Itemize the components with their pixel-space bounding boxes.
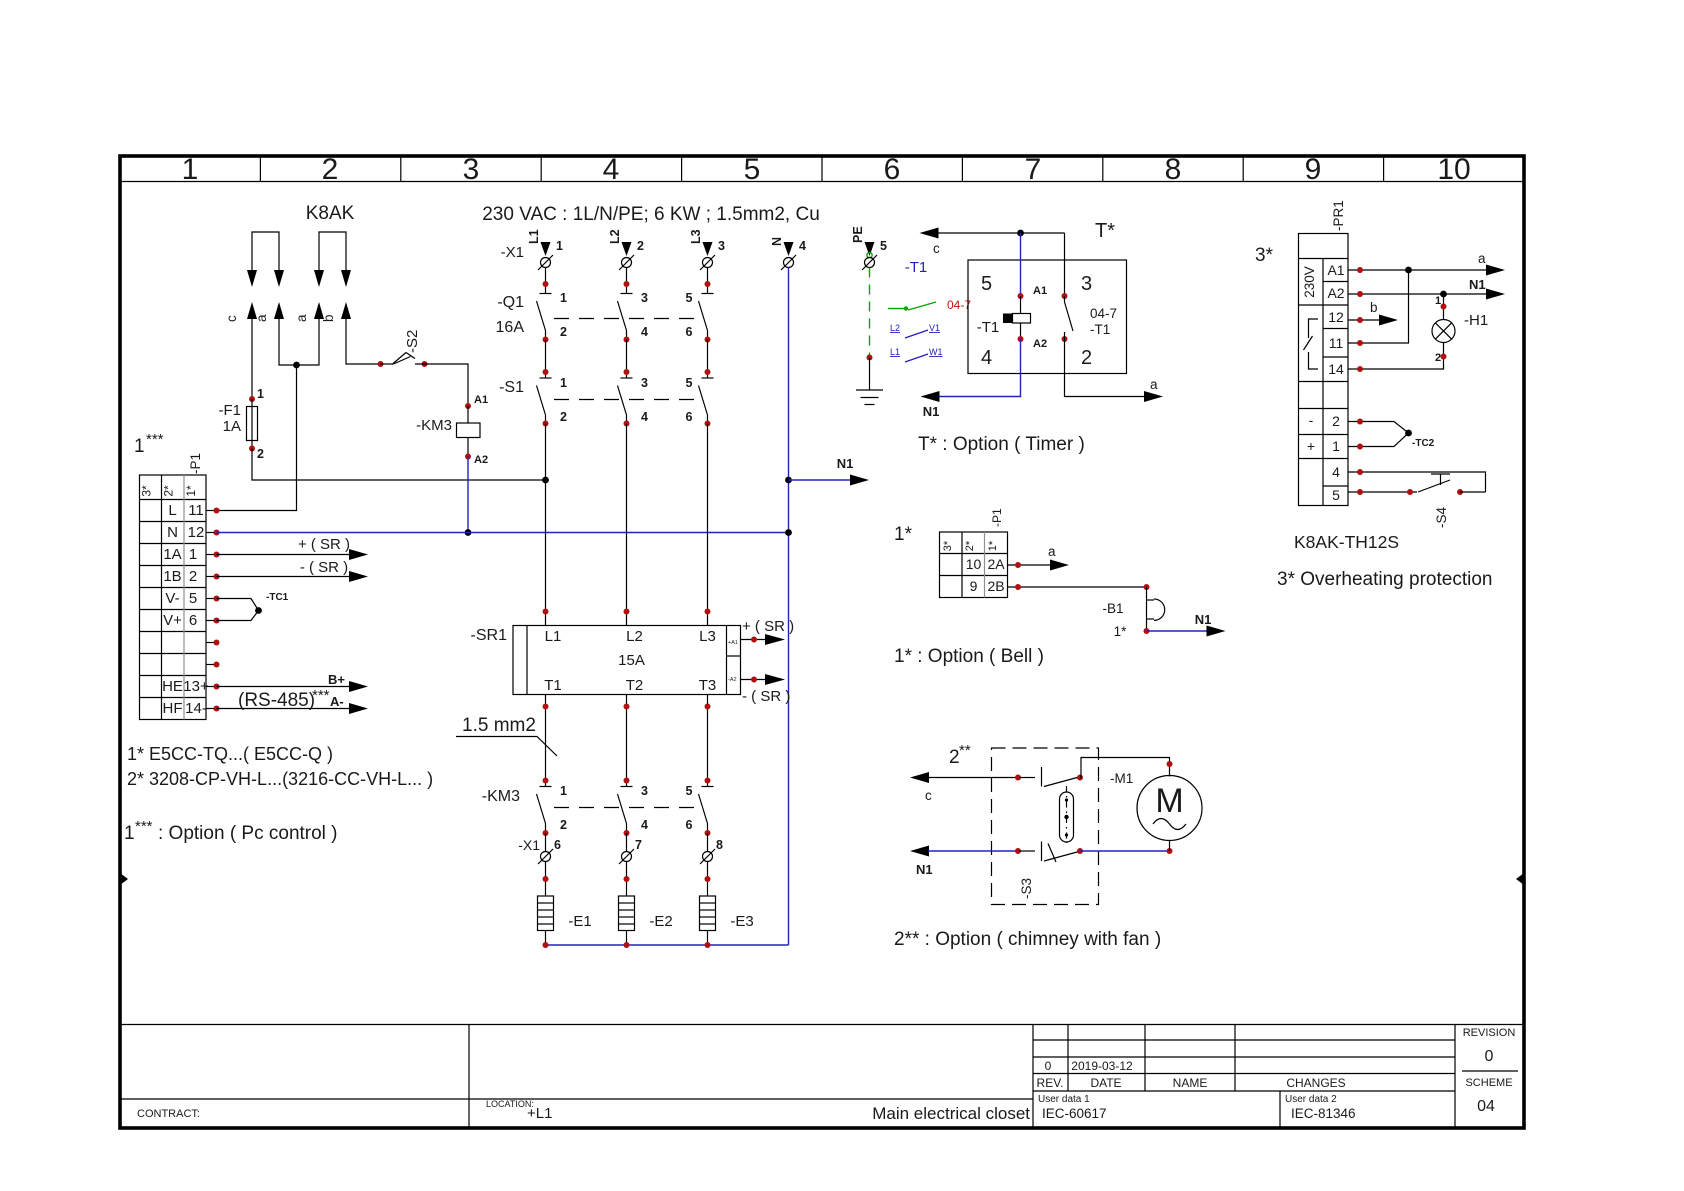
svg-text:7: 7 [1025, 153, 1042, 186]
wire L3 into Q1 [707, 268, 709, 294]
svg-text:230 VAC : 1L/N/PE; 6 KW ; 1.5: 230 VAC : 1L/N/PE; 6 KW ; 1.5mm2, Cu [482, 204, 820, 225]
junction A2 on N bus [465, 529, 472, 536]
svg-text:1.5 mm2: 1.5 mm2 [462, 715, 536, 736]
svg-text:1: 1 [1332, 438, 1340, 454]
svg-text:Main electrical closet: Main electrical closet [872, 1104, 1030, 1123]
svg-text:0: 0 [1485, 1048, 1494, 1065]
svg-text:PE: PE [851, 226, 865, 243]
fuse F1 [251, 399, 253, 449]
svg-text:a: a [254, 314, 269, 322]
svg-text:4: 4 [641, 325, 648, 339]
column numbers 1-10 [182, 153, 1471, 186]
svg-text:-T1: -T1 [905, 259, 928, 276]
wire coil A1 [1020, 233, 1022, 296]
fuse F1 pin2 [249, 446, 255, 452]
breaker Q1 pole 1 [537, 294, 552, 340]
svg-text:L2: L2 [890, 323, 900, 333]
svg-text:b: b [321, 314, 336, 322]
svg-text:-S2: -S2 [404, 330, 421, 353]
svg-text:5: 5 [1332, 487, 1340, 503]
bell junction to N1 [1144, 628, 1150, 634]
svg-text:1: 1 [1435, 295, 1441, 307]
svg-text:W1: W1 [929, 347, 943, 357]
svg-text:10: 10 [1437, 153, 1470, 186]
svg-text:***: *** [312, 687, 330, 704]
switch S1 linkage [554, 399, 700, 401]
svg-text:V1: V1 [929, 323, 940, 333]
svg-text:CHANGES: CHANGES [1286, 1076, 1345, 1090]
svg-text:3: 3 [641, 376, 648, 390]
svg-text:-M1: -M1 [1110, 771, 1133, 786]
svg-text:1A: 1A [223, 418, 241, 435]
terminal strip P1 [140, 475, 207, 720]
svg-text:HE: HE [162, 678, 183, 695]
svg-text:5: 5 [981, 273, 992, 295]
wire PR1 A1 to a [1348, 269, 1487, 271]
svg-text:04-7: 04-7 [1090, 306, 1117, 321]
svg-text:3: 3 [463, 153, 480, 186]
svg-text:-E1: -E1 [568, 913, 591, 930]
svg-text:HF: HF [163, 700, 183, 717]
wire PE column dashed [869, 268, 871, 358]
contactor coil KM3 pin A1 [465, 403, 471, 409]
wire S1 pole3 to SR1 L3 [705, 421, 711, 427]
svg-text:5: 5 [189, 590, 197, 607]
svg-text:CONTRACT:: CONTRACT: [137, 1108, 200, 1120]
svg-text:13+: 13+ [183, 678, 209, 695]
wire PR1 5 to thermostat S4 [1348, 491, 1417, 493]
svg-text:1: 1 [560, 291, 567, 305]
svg-text:3* Overheating protection: 3* Overheating protection [1277, 569, 1492, 590]
svg-text:3: 3 [641, 291, 648, 305]
svg-text:16A: 16A [496, 319, 525, 336]
wire X1-6 to heater E1 [545, 862, 547, 897]
socket arrow node a2 [314, 302, 324, 319]
wire contact to motor bottom [1080, 850, 1170, 852]
column header band line [120, 181, 1524, 183]
svg-text:2: 2 [949, 747, 960, 768]
thermocouple TC1 node [255, 607, 262, 614]
svg-text:3*: 3* [942, 540, 954, 551]
connector plug bracket 2 (K8AK outputs a,b) [319, 232, 346, 271]
wire PR1 14 to lamp [1348, 343, 1444, 370]
node a junction [293, 362, 300, 369]
svg-text:b: b [1370, 300, 1378, 315]
svg-text:1: 1 [556, 239, 563, 253]
wire PR1 12 to b [1348, 319, 1380, 321]
svg-text:4: 4 [641, 410, 648, 424]
svg-text:L1: L1 [545, 628, 562, 645]
motor M1 [1137, 776, 1202, 841]
svg-text:-X1: -X1 [501, 244, 524, 261]
svg-text:4: 4 [799, 239, 806, 253]
svg-text:1: 1 [134, 436, 145, 457]
wire timer contact to a [1065, 339, 1146, 397]
svg-text:A2: A2 [474, 454, 488, 466]
fan switch S3 lower contact [1019, 850, 1035, 852]
P1 pin stubs [206, 511, 217, 709]
svg-text:2*: 2* [964, 540, 976, 551]
svg-text:-X1: -X1 [518, 837, 540, 853]
bell terminal strip P1 [940, 532, 1008, 598]
svg-text:**: ** [959, 742, 971, 759]
svg-text:0: 0 [1045, 1059, 1052, 1073]
socket arrow node a1 [274, 302, 284, 319]
svg-text:N1: N1 [923, 404, 940, 419]
contactor KM3 pole 1 [537, 787, 552, 834]
wire S1 pole2 to SR1 L2 [624, 421, 630, 427]
X1 terminal 4 N [770, 237, 806, 270]
svg-text:4: 4 [603, 153, 620, 186]
wire A- from terminal 14 [217, 708, 353, 710]
heater E1 [538, 896, 554, 931]
svg-text:-TC2: -TC2 [1412, 438, 1435, 449]
svg-text:11: 11 [188, 502, 204, 519]
svg-text:-T1: -T1 [977, 319, 1000, 336]
svg-text:-TC1: -TC1 [266, 592, 289, 603]
svg-text:User data 1: User data 1 [1038, 1094, 1090, 1105]
svg-text:(RS-485): (RS-485) [238, 690, 315, 711]
svg-text:L3: L3 [689, 229, 703, 244]
wire SR1 -SR control arrow [741, 679, 769, 681]
wire bell 2B to bell B1 [1008, 586, 1147, 588]
svg-text:IEC-81346: IEC-81346 [1291, 1106, 1356, 1121]
thermocouple TC2 node [1405, 430, 1412, 437]
timer aux contact W1 [890, 347, 943, 362]
svg-text:2: 2 [560, 818, 567, 832]
wire +SR from terminal 1 [217, 554, 353, 556]
svg-text:1*: 1* [184, 485, 198, 497]
svg-text:2* 3208-CP-VH-L...(3216-CC-VH-: 2* 3208-CP-VH-L...(3216-CC-VH-L... ) [127, 769, 433, 789]
wire fan c line [910, 772, 929, 783]
X1 terminal 3 L3 [689, 229, 725, 270]
svg-text:L2: L2 [608, 229, 622, 244]
svg-text:8: 8 [716, 838, 723, 852]
P1 pin dots [214, 508, 220, 712]
wire c line [920, 228, 939, 239]
svg-text:11: 11 [1329, 335, 1344, 351]
switch S1 pole 1 [537, 378, 552, 424]
svg-text:-T1: -T1 [1090, 322, 1110, 337]
svg-text:3*: 3* [140, 485, 154, 497]
svg-text:1* : Option ( Bell ): 1* : Option ( Bell ) [894, 646, 1044, 667]
wire heaters to N return bus [545, 931, 547, 946]
wire X1-8 to heater E3 [707, 862, 709, 897]
wire contact to motor top [1080, 758, 1170, 778]
wire L1 into Q1 [545, 268, 547, 294]
svg-text:3: 3 [1081, 273, 1092, 295]
svg-text:M: M [1155, 782, 1183, 820]
X1 terminal 7 [624, 830, 630, 836]
N return bus [546, 944, 789, 946]
svg-text:a: a [1150, 377, 1158, 392]
svg-text:-SR1: -SR1 [471, 627, 508, 644]
svg-text:A1: A1 [474, 394, 488, 406]
svg-text:N: N [167, 524, 178, 541]
connector plug bracket 1 (K8AK outputs c,a) [252, 232, 279, 271]
svg-text:c: c [933, 241, 940, 256]
svg-text:-E3: -E3 [730, 913, 753, 930]
svg-text:2** : Option ( chimney with fa: 2** : Option ( chimney with fan ) [894, 929, 1161, 950]
wire L2 into Q1 [626, 268, 628, 294]
svg-text:NAME: NAME [1173, 1076, 1208, 1090]
svg-text:T3: T3 [699, 677, 717, 694]
wire PR1 11 to A1 line [1348, 270, 1409, 343]
wire Q1 to S1 pole2 [624, 337, 630, 343]
socket arrow node c [247, 302, 257, 319]
svg-text:: Option ( Pc control ): : Option ( Pc control ) [158, 823, 338, 844]
fan switch S3 upper contact [1019, 777, 1035, 779]
wire SR1 T3 to KM3 [707, 695, 709, 787]
svg-text:4: 4 [641, 818, 648, 832]
svg-text:6: 6 [189, 612, 197, 629]
svg-text:L: L [168, 502, 176, 519]
svg-text:-S4: -S4 [1434, 507, 1449, 529]
thermostat switch S4 [1418, 480, 1450, 492]
svg-text:L1: L1 [527, 229, 541, 244]
svg-text:1: 1 [560, 376, 567, 390]
svg-text:2019-03-12: 2019-03-12 [1071, 1059, 1133, 1073]
wire PR1 A2 to N1 [1348, 293, 1487, 295]
wire SR1 T2 to KM3 [626, 695, 628, 787]
svg-text:9: 9 [1305, 153, 1322, 186]
svg-text:2: 2 [257, 447, 264, 461]
svg-text:2: 2 [1081, 347, 1092, 369]
timer aux contact V1 [890, 323, 940, 338]
switch S2 [378, 361, 384, 367]
svg-text:A-: A- [330, 694, 344, 709]
svg-text:a: a [294, 314, 309, 322]
X1 terminal 8 [705, 830, 711, 836]
timer contact column [1064, 233, 1066, 296]
svg-text:5: 5 [744, 153, 761, 186]
svg-text:***: *** [135, 818, 153, 835]
heater E2 [619, 896, 635, 931]
svg-text:B+: B+ [328, 672, 345, 687]
svg-text:2: 2 [560, 325, 567, 339]
svg-text:N1: N1 [1195, 612, 1212, 627]
right border centering mark [1516, 873, 1524, 885]
svg-text:N1: N1 [1469, 277, 1486, 292]
switch S1 pole 2 [618, 378, 633, 424]
svg-text:a: a [1478, 251, 1486, 266]
svg-text:5: 5 [686, 784, 693, 798]
svg-text:-KM3: -KM3 [416, 417, 452, 434]
wire Q1 to S1 pole3 [705, 337, 711, 343]
svg-text:L1: L1 [890, 347, 900, 357]
svg-text:T1: T1 [544, 677, 562, 694]
X1 terminal 5 PE [851, 226, 887, 270]
svg-text:User data 2: User data 2 [1285, 1094, 1337, 1105]
wire PR1 4 loop [1348, 472, 1486, 492]
fan dashed enclosure [992, 748, 1099, 905]
wire a down to terminal 11 [217, 365, 297, 511]
svg-text:1: 1 [560, 784, 567, 798]
switch S1 pole 3 [699, 378, 714, 424]
svg-text:14: 14 [1328, 361, 1344, 377]
wire SR1 T1 to KM3 [545, 695, 547, 787]
bell B1 [1147, 599, 1165, 620]
breaker Q1 linkage [554, 318, 700, 320]
svg-text:A1: A1 [1327, 262, 1344, 278]
svg-text:1B: 1B [163, 568, 181, 585]
svg-text:c: c [224, 315, 239, 322]
svg-text:T*: T* [1095, 220, 1115, 242]
svg-text:N1: N1 [916, 862, 933, 877]
wire S2 to KM3 coil A1 [415, 364, 468, 406]
wire c arrow to fuse F1 [251, 319, 253, 399]
svg-text:5: 5 [686, 291, 693, 305]
svg-text:6: 6 [686, 818, 693, 832]
svg-text:L3: L3 [699, 628, 716, 645]
wire b to switch S2 [346, 319, 381, 364]
svg-text:-B1: -B1 [1102, 601, 1123, 616]
svg-text:12: 12 [1328, 309, 1344, 325]
svg-text:6: 6 [686, 410, 693, 424]
svg-text:1*: 1* [894, 524, 913, 545]
wire S1 pole1 to SR1 L1 [543, 421, 549, 427]
wire F1 to L1 column [252, 449, 546, 481]
wire bell 2A to a arrow [1008, 564, 1052, 566]
svg-text:A2: A2 [1327, 285, 1344, 301]
svg-text:+ ( SR ): + ( SR ) [298, 536, 350, 553]
svg-text:1: 1 [124, 823, 135, 844]
svg-text:-A2: -A2 [728, 677, 737, 683]
svg-text:+: + [1307, 438, 1315, 454]
svg-text:2: 2 [322, 153, 339, 186]
wire a pair join [279, 319, 297, 365]
svg-text:1: 1 [182, 153, 199, 186]
solid state relay SR1 [513, 626, 741, 695]
svg-text:10: 10 [966, 556, 982, 572]
ground symbol [856, 390, 883, 405]
heater E3 [700, 896, 716, 931]
svg-text:3: 3 [641, 784, 648, 798]
wire coil A2 to N1 [939, 339, 1021, 397]
wire X1-7 to heater E2 [626, 862, 628, 897]
timer box [968, 260, 1127, 374]
svg-text:A1: A1 [1033, 285, 1047, 297]
svg-text:04: 04 [1477, 1098, 1495, 1115]
svg-text:2*: 2* [162, 485, 176, 497]
svg-text:-S3: -S3 [1019, 878, 1034, 899]
svg-text:1*: 1* [987, 540, 999, 551]
P1 row labels [162, 502, 209, 717]
svg-text:5: 5 [686, 376, 693, 390]
svg-text:SCHEME: SCHEME [1465, 1077, 1512, 1089]
svg-text:T2: T2 [626, 677, 644, 694]
svg-text:4: 4 [1332, 464, 1340, 480]
svg-text:V+: V+ [163, 612, 182, 629]
column header ticks [260, 156, 1383, 182]
svg-text:1*: 1* [1114, 624, 1128, 639]
svg-text:2B: 2B [987, 578, 1004, 594]
svg-text:- ( SR ): - ( SR ) [742, 688, 790, 705]
svg-text:+A1: +A1 [728, 640, 738, 646]
S3 thermal sensor capsule [1066, 786, 1068, 843]
contactor coil KM3 pin A2 [465, 454, 471, 460]
wire SR1 +SR control arrow [741, 639, 769, 641]
svg-text:-: - [1309, 412, 1314, 428]
svg-text:c: c [925, 788, 932, 803]
svg-text:5: 5 [880, 239, 887, 253]
svg-text:7: 7 [635, 838, 642, 852]
fuse F1 pin1 [249, 396, 255, 402]
svg-text:-P1: -P1 [188, 453, 203, 474]
svg-text:9: 9 [970, 578, 978, 594]
contactor KM3 pole 3 [699, 787, 714, 834]
svg-text:T* : Option ( Timer ): T* : Option ( Timer ) [918, 434, 1085, 455]
wire N column [788, 268, 790, 946]
PR1 internal changeover contact symbol [1304, 319, 1319, 369]
wire N1 arrow [789, 479, 852, 481]
wire A2 to N bus [467, 457, 469, 533]
title block outline [120, 1025, 1524, 1129]
svg-text:IEC-60617: IEC-60617 [1042, 1106, 1107, 1121]
svg-text:1* E5CC-TQ...( E5CC-Q ): 1* E5CC-TQ...( E5CC-Q ) [127, 744, 333, 764]
svg-text:2: 2 [637, 239, 644, 253]
svg-text:a: a [1048, 544, 1056, 559]
svg-text:V-: V- [165, 590, 179, 607]
svg-text:- ( SR ): - ( SR ) [300, 559, 348, 576]
svg-text:+L1: +L1 [527, 1105, 552, 1122]
svg-text:1: 1 [257, 387, 264, 401]
wire PR1 2 to TC2 [1348, 422, 1409, 434]
wire fan N1 line [910, 846, 929, 857]
svg-text:REV.: REV. [1037, 1076, 1064, 1090]
svg-text:REVISION: REVISION [1463, 1027, 1516, 1039]
svg-text:2A: 2A [987, 556, 1005, 572]
junction N1 tap [785, 477, 792, 484]
svg-text:15A: 15A [618, 652, 645, 669]
lamp H1 [1443, 294, 1445, 320]
socket arrow node b [341, 302, 351, 319]
svg-text:-PR1: -PR1 [1331, 200, 1346, 231]
X1 terminal 2 L2 [608, 229, 644, 270]
svg-text:-H1: -H1 [1464, 312, 1488, 329]
svg-text:DATE: DATE [1090, 1076, 1121, 1090]
svg-text:6: 6 [554, 838, 561, 852]
junction timer coil to c [1017, 230, 1024, 237]
junction N bus [785, 529, 792, 536]
svg-text:3: 3 [718, 239, 725, 253]
svg-text:K8AK-TH12S: K8AK-TH12S [1294, 532, 1399, 552]
svg-text:-Q1: -Q1 [497, 294, 524, 311]
breaker Q1 pole 2 [618, 294, 633, 340]
svg-text:12: 12 [188, 524, 205, 541]
svg-text:1A: 1A [163, 546, 181, 563]
svg-text:***: *** [146, 431, 164, 448]
svg-text:L2: L2 [626, 628, 643, 645]
svg-text:2: 2 [1435, 352, 1441, 364]
svg-text:2: 2 [189, 568, 197, 585]
X1 terminal 1 L1 [527, 229, 563, 270]
relay PR1 terminal table [1299, 234, 1349, 506]
junction on L1 column [542, 477, 549, 484]
breaker Q1 pole 3 [699, 294, 714, 340]
coil pin A2 [1018, 336, 1024, 342]
timer coil T1 [1020, 296, 1022, 314]
svg-text:2: 2 [560, 410, 567, 424]
svg-text:N: N [770, 237, 784, 246]
svg-text:-KM3: -KM3 [482, 788, 520, 805]
svg-text:6: 6 [884, 153, 901, 186]
timer aux contact green [888, 302, 936, 311]
svg-text:4: 4 [981, 347, 992, 369]
svg-text:1: 1 [189, 546, 197, 563]
contactor coil KM3 [467, 406, 469, 423]
wire B+ from terminal 13 [217, 686, 353, 688]
